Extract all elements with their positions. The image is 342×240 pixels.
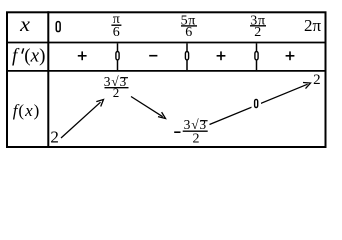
x value 0 <box>56 22 60 32</box>
f' sign plus 2 <box>217 51 226 60</box>
f max value 3sqrt3/2 <box>104 74 129 100</box>
f min value -3sqrt3/2 <box>174 117 208 147</box>
svg-text:x: x <box>19 15 30 36</box>
svg-text:2: 2 <box>193 132 200 147</box>
f' zero tick at pi/6 <box>116 43 119 70</box>
x value 3pi/2 fraction <box>250 13 266 40</box>
arrow up 1 (2 to 3sqrt3/2) <box>61 100 104 139</box>
f' zero tick at 3pi/2 <box>255 43 258 70</box>
row separator 1 (below x row) <box>6 42 327 44</box>
f' sign minus <box>149 55 157 57</box>
svg-text:6: 6 <box>113 25 120 40</box>
f intermediate value 0 on arrow <box>255 99 258 107</box>
arrow down (3sqrt3/2 to -3sqrt3/2) <box>131 97 166 119</box>
header column separator <box>47 11 49 148</box>
row separator 2 (below f'(x) row) <box>6 70 327 72</box>
svg-text:2: 2 <box>254 25 261 40</box>
x value 5pi/6 fraction <box>181 13 197 40</box>
svg-text:(x): (x) <box>24 46 45 67</box>
svg-text:2π: 2π <box>304 16 322 35</box>
svg-text:2: 2 <box>113 85 120 100</box>
arrow up 2 (-3sqrt3/2 through 0 to 2) <box>210 83 311 125</box>
svg-text:6: 6 <box>185 25 192 40</box>
f' zero tick at 5pi/6 <box>185 43 188 70</box>
svg-text:2: 2 <box>313 72 321 88</box>
table outer frame <box>7 12 326 147</box>
f' sign plus 1 <box>78 51 87 60</box>
svg-text:2: 2 <box>50 127 59 146</box>
header label f'(x) <box>12 46 45 67</box>
f' sign plus 3 <box>286 51 295 60</box>
svg-text:f(x): f(x) <box>13 101 41 120</box>
x value pi/6 fraction <box>111 12 121 40</box>
svg-text:3√3: 3√3 <box>184 117 207 132</box>
